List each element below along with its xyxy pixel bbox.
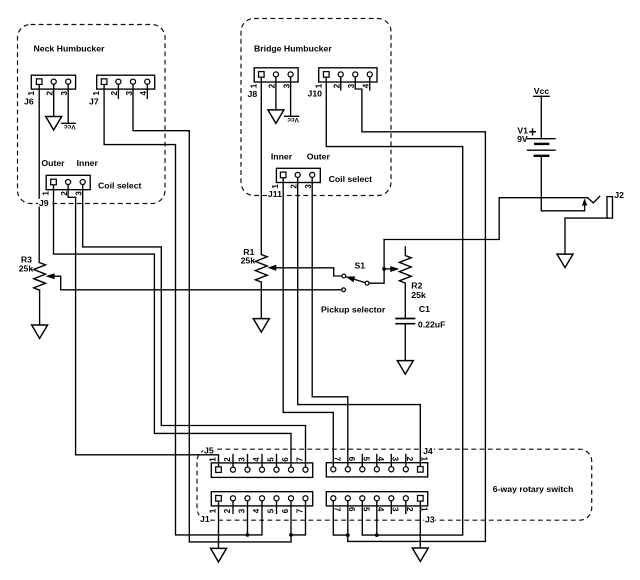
svg-text:J9: J9: [39, 198, 49, 208]
svg-text:5: 5: [267, 508, 276, 513]
svg-text:25k: 25k: [411, 290, 426, 300]
svg-text:3: 3: [238, 508, 247, 513]
svg-text:Neck Humbucker: Neck Humbucker: [34, 44, 106, 54]
svg-text:Inner: Inner: [77, 158, 99, 168]
svg-text:J1: J1: [200, 514, 210, 524]
svg-text:3: 3: [391, 507, 400, 512]
svg-text:4: 4: [252, 508, 261, 513]
svg-text:Vcc: Vcc: [287, 116, 299, 123]
svg-text:Bridge Humbucker: Bridge Humbucker: [254, 44, 332, 54]
svg-text:2: 2: [110, 91, 119, 96]
svg-text:Outer: Outer: [41, 158, 65, 168]
svg-text:J11: J11: [268, 189, 282, 199]
svg-text:3: 3: [304, 184, 313, 189]
svg-text:J5: J5: [204, 445, 214, 455]
svg-text:4: 4: [252, 457, 261, 462]
svg-text:S1: S1: [355, 260, 366, 270]
svg-text:+: +: [529, 124, 537, 139]
svg-text:1: 1: [27, 91, 36, 96]
svg-text:25k: 25k: [241, 256, 256, 266]
svg-text:6: 6: [281, 508, 290, 513]
svg-text:J2: J2: [614, 190, 624, 200]
svg-text:3: 3: [391, 457, 400, 462]
svg-text:7: 7: [296, 457, 305, 462]
svg-text:2: 2: [405, 507, 414, 512]
svg-text:5: 5: [362, 507, 371, 512]
svg-text:C1: C1: [419, 304, 430, 314]
svg-text:5: 5: [267, 457, 276, 462]
svg-text:Pickup selector: Pickup selector: [321, 305, 386, 315]
svg-text:Vcc: Vcc: [64, 123, 76, 130]
svg-text:J8: J8: [248, 89, 258, 99]
svg-text:Inner: Inner: [271, 152, 293, 162]
svg-text:Vcc: Vcc: [534, 86, 550, 96]
svg-text:1: 1: [42, 191, 51, 196]
svg-text:6: 6: [347, 507, 356, 512]
svg-text:3: 3: [347, 83, 356, 88]
svg-text:Coil select: Coil select: [329, 174, 373, 184]
svg-text:3: 3: [60, 91, 69, 96]
svg-text:1: 1: [92, 91, 101, 96]
svg-text:3: 3: [125, 91, 134, 96]
svg-text:3: 3: [282, 83, 291, 88]
svg-text:R2: R2: [411, 281, 422, 291]
svg-text:J3: J3: [425, 515, 435, 525]
svg-text:4: 4: [376, 457, 385, 462]
svg-text:2: 2: [333, 83, 342, 88]
svg-text:6: 6: [281, 457, 290, 462]
svg-text:1: 1: [314, 83, 323, 88]
svg-text:2: 2: [290, 184, 299, 189]
svg-text:9V: 9V: [517, 134, 528, 144]
svg-text:2: 2: [60, 191, 69, 196]
svg-text:3: 3: [75, 191, 84, 196]
svg-text:5: 5: [362, 457, 371, 462]
svg-text:6-way rotary switch: 6-way rotary switch: [493, 484, 574, 494]
svg-text:7: 7: [296, 508, 305, 513]
svg-text:0.22uF: 0.22uF: [418, 319, 446, 329]
svg-text:4: 4: [376, 507, 385, 512]
svg-text:7: 7: [333, 507, 342, 512]
svg-text:4: 4: [139, 91, 148, 96]
svg-text:J6: J6: [24, 96, 34, 106]
svg-text:1: 1: [209, 508, 218, 513]
svg-text:J10: J10: [308, 89, 323, 99]
svg-text:2: 2: [223, 457, 232, 462]
svg-text:2: 2: [405, 457, 414, 462]
svg-text:J7: J7: [89, 96, 99, 106]
svg-text:1: 1: [420, 507, 429, 512]
svg-text:4: 4: [362, 83, 371, 88]
svg-text:2: 2: [223, 508, 232, 513]
svg-text:3: 3: [238, 457, 247, 462]
svg-text:25k: 25k: [19, 264, 34, 274]
svg-text:1: 1: [249, 83, 258, 88]
svg-text:1: 1: [420, 457, 429, 462]
svg-text:Outer: Outer: [307, 152, 331, 162]
svg-text:6: 6: [347, 457, 356, 462]
svg-text:J4: J4: [423, 446, 433, 456]
svg-text:2: 2: [46, 91, 55, 96]
svg-text:7: 7: [333, 457, 342, 462]
svg-text:Coil select: Coil select: [98, 181, 142, 191]
svg-text:1: 1: [271, 184, 280, 189]
svg-text:2: 2: [268, 83, 277, 88]
svg-text:1: 1: [209, 457, 218, 462]
